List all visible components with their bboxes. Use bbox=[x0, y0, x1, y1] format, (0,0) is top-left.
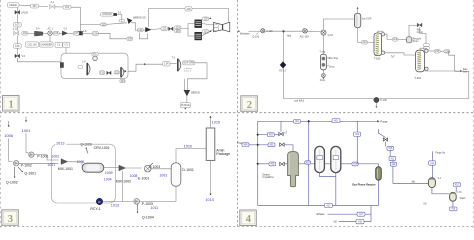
wire n2 bbox=[339, 220, 356, 222]
arrow up 1015 bbox=[209, 116, 211, 118]
arrow up A bbox=[209, 17, 211, 19]
arrow sale gas bbox=[460, 69, 468, 74]
svg-text:2: 2 bbox=[247, 100, 252, 111]
wire bbox=[385, 34, 393, 39]
stream box 2b bbox=[423, 47, 429, 50]
svg-text:1004: 1004 bbox=[104, 178, 112, 182]
LNG exchanger A bbox=[195, 20, 202, 28]
stream box 6 bbox=[13, 44, 21, 48]
svg-text:Q-trp: Q-trp bbox=[329, 66, 335, 69]
svg-text:P-100: P-100 bbox=[380, 99, 387, 102]
svg-text:1: 1 bbox=[8, 100, 13, 111]
capsule1 inner bbox=[317, 149, 323, 170]
svg-text:Drain: Drain bbox=[320, 79, 326, 82]
svg-text:1006: 1006 bbox=[4, 133, 13, 138]
valve V-100 bbox=[261, 29, 274, 33]
wire bbox=[419, 27, 421, 33]
wide label box NGF bbox=[183, 61, 195, 65]
recycle compressor glyph bbox=[417, 23, 424, 34]
wire bbox=[186, 96, 188, 102]
valve 2-1 bbox=[50, 0, 55, 8]
svg-text:1013: 1013 bbox=[56, 141, 64, 145]
mixer M-2 bbox=[145, 27, 151, 32]
valve X r3 bbox=[280, 143, 285, 146]
pump P-1001 bbox=[29, 152, 49, 159]
wire bbox=[452, 201, 454, 207]
stream box r5 bbox=[305, 161, 311, 165]
svg-text:1015: 1015 bbox=[212, 121, 220, 125]
wire bbox=[59, 32, 62, 34]
column T-100 bbox=[374, 33, 382, 60]
wire bbox=[389, 150, 391, 156]
badge 4 bbox=[240, 210, 256, 226]
svg-text:2-1: 2-1 bbox=[51, 0, 55, 4]
page border right bbox=[472, 0, 474, 228]
loop wire bbox=[61, 53, 128, 78]
wire bbox=[131, 23, 137, 31]
svg-text:Q-1002: Q-1002 bbox=[6, 181, 18, 185]
svg-text:105: 105 bbox=[15, 44, 20, 48]
stream box 4 bbox=[13, 23, 21, 27]
wire bbox=[16, 48, 18, 56]
pump P-1002 bbox=[14, 161, 32, 168]
valve X r2 bbox=[279, 131, 288, 135]
wire bbox=[181, 24, 195, 29]
stream box 12 bbox=[161, 27, 168, 31]
wire bbox=[428, 50, 434, 52]
mixer MIX-1001 bbox=[58, 159, 73, 171]
svg-text:T-101: T-101 bbox=[414, 76, 421, 80]
stream box bl bbox=[324, 203, 332, 207]
expander K-100 bbox=[214, 23, 223, 32]
stream 1001 bbox=[22, 116, 31, 133]
svg-text:MERGE GO: MERGE GO bbox=[133, 18, 146, 20]
svg-text:RCY-1: RCY-1 bbox=[90, 207, 100, 211]
svg-text:Q-1006: Q-1006 bbox=[80, 143, 91, 147]
mixer MIX-1002 bbox=[116, 165, 131, 183]
wire bbox=[16, 36, 18, 44]
wire bbox=[43, 33, 48, 35]
stream box 14 bbox=[202, 17, 208, 21]
svg-text:106: 106 bbox=[54, 31, 59, 35]
page border bottom bbox=[0, 226, 474, 228]
svg-text:101: 101 bbox=[32, 4, 37, 8]
stream box r3 bbox=[268, 143, 275, 147]
wire bbox=[16, 27, 18, 31]
wire bbox=[307, 30, 320, 32]
wire bbox=[183, 79, 185, 90]
heater E-100 bbox=[300, 29, 309, 39]
text lines under NGF bbox=[184, 68, 193, 72]
wire feed T101 bbox=[385, 53, 416, 55]
wire bbox=[175, 186, 177, 201]
air cooler AC-1 bbox=[48, 28, 54, 36]
wire bbox=[143, 29, 146, 31]
stream box 15 bbox=[202, 29, 208, 33]
wire top purge line bbox=[258, 120, 377, 122]
wire bbox=[409, 25, 417, 36]
pump P-100 bbox=[374, 97, 388, 102]
svg-text:Purge Va: Purge Va bbox=[435, 152, 445, 155]
wire bbox=[103, 201, 134, 203]
Amin Package rect bbox=[206, 128, 215, 160]
wire between capsules bbox=[324, 163, 330, 165]
wire capsule1 stub bbox=[320, 173, 336, 177]
recycle loop Q3 bbox=[51, 144, 115, 203]
svg-text:1008: 1008 bbox=[130, 174, 138, 178]
stream box 1 bbox=[31, 4, 39, 8]
wire ethane bbox=[327, 213, 357, 215]
stream box fv bbox=[453, 183, 460, 187]
stream box 20 bbox=[120, 79, 125, 83]
svg-text:T-100: T-100 bbox=[374, 56, 381, 60]
svg-text:MEA-Trap: MEA-Trap bbox=[328, 57, 339, 60]
wire bbox=[55, 6, 63, 8]
wire vertical B bbox=[308, 121, 310, 205]
recycle diamond RCY bbox=[279, 62, 286, 73]
stream box rx3 bbox=[390, 162, 396, 166]
MEA trap vessel bbox=[320, 54, 338, 70]
stream box rx2 bbox=[389, 156, 396, 160]
wire bbox=[170, 63, 177, 65]
junction hyd bbox=[282, 30, 284, 32]
svg-text:3: 3 bbox=[8, 214, 13, 225]
stream box 19 bbox=[114, 70, 119, 74]
wire bbox=[176, 149, 206, 163]
svg-text:131: 131 bbox=[100, 71, 105, 75]
svg-text:AC 1: AC 1 bbox=[48, 28, 54, 31]
svg-text:ToT: ToT bbox=[391, 57, 395, 59]
svg-text:Q-1003: Q-1003 bbox=[149, 165, 160, 169]
node dark valve bbox=[77, 31, 87, 36]
vessel D-1001 bbox=[171, 163, 181, 186]
label Q-1004 bbox=[137, 204, 154, 219]
svg-text:Deeper: Deeper bbox=[262, 173, 270, 176]
drain glyph bbox=[322, 74, 326, 78]
reactor CRV-1001 bbox=[82, 163, 104, 172]
svg-text:CHAMBER: CHAMBER bbox=[40, 43, 52, 46]
wire bbox=[9, 138, 13, 161]
mixer MIX-100 bbox=[321, 30, 334, 37]
wide box LPROAN bbox=[101, 12, 123, 16]
svg-text:Q-1004: Q-1004 bbox=[142, 215, 154, 219]
wire bbox=[128, 64, 163, 71]
wire right loop bbox=[284, 71, 469, 98]
svg-text:Methane: Methane bbox=[240, 33, 250, 36]
svg-text:107: 107 bbox=[74, 31, 79, 35]
stream box gly bbox=[434, 49, 440, 53]
wire bbox=[210, 117, 212, 128]
wire bbox=[358, 28, 374, 43]
svg-text:mol 1.4: mol 1.4 bbox=[184, 70, 192, 72]
stream box r6 bbox=[352, 162, 358, 166]
svg-text:Drum: Drum bbox=[413, 40, 419, 43]
page border left bbox=[0, 0, 2, 228]
stream box 2a bbox=[423, 44, 429, 47]
reboiler T-101 bbox=[425, 67, 428, 70]
svg-text:Crystallizer: Crystallizer bbox=[262, 176, 274, 179]
wire bbox=[52, 32, 53, 34]
wire bbox=[49, 35, 51, 42]
stream box v2 bbox=[354, 132, 361, 136]
stream box Cond bbox=[392, 38, 398, 42]
badge 1 bbox=[3, 96, 20, 112]
svg-text:Package: Package bbox=[216, 152, 230, 156]
wire bbox=[440, 50, 444, 52]
svg-text:112: 112 bbox=[138, 28, 143, 32]
badge 2 bbox=[241, 96, 257, 112]
wire bbox=[356, 136, 358, 163]
crystallizer vessel bbox=[288, 151, 299, 186]
stream box 8 bbox=[73, 31, 79, 35]
recycle RCY-1 bbox=[90, 198, 102, 211]
stream box 18 bbox=[99, 71, 104, 75]
svg-text:RCY-2: RCY-2 bbox=[279, 70, 286, 72]
wire bbox=[98, 33, 127, 39]
separator V-402 bbox=[450, 191, 467, 201]
wire bbox=[358, 164, 378, 167]
svg-text:1001: 1001 bbox=[22, 128, 31, 133]
svg-text:CV: CV bbox=[65, 44, 69, 47]
svg-text:104: 104 bbox=[23, 31, 28, 35]
reboiler T-100 bbox=[381, 51, 384, 54]
arrow exit loop bbox=[124, 70, 126, 73]
wire bbox=[265, 30, 302, 32]
stream box 16b bbox=[214, 28, 219, 31]
wire purge valve vertical bbox=[432, 151, 434, 178]
wire reactor out right bbox=[393, 183, 428, 185]
wire bbox=[28, 32, 34, 34]
wire bottom long bbox=[258, 205, 379, 207]
svg-text:LPROAN: LPROAN bbox=[102, 13, 112, 16]
chamber box D bbox=[63, 42, 70, 47]
svg-text:210: 210 bbox=[362, 40, 367, 44]
svg-text:Flash: Flash bbox=[460, 198, 466, 200]
stream box 8c bbox=[127, 37, 133, 41]
svg-text:115: 115 bbox=[176, 29, 181, 33]
svg-text:1009: 1009 bbox=[105, 171, 113, 175]
stream box 13a bbox=[175, 25, 181, 29]
svg-text:132: 132 bbox=[115, 70, 120, 74]
reactor capsule 1 bbox=[315, 146, 325, 172]
stream label Methane bbox=[238, 30, 250, 35]
arrow up sat bbox=[357, 7, 359, 9]
wire bbox=[322, 70, 324, 74]
svg-text:Cnd: Cnd bbox=[393, 39, 398, 41]
svg-text:103: 103 bbox=[15, 23, 20, 27]
arrow down pump bbox=[375, 106, 377, 108]
wire row33 to box bbox=[82, 32, 92, 34]
svg-text:D-1001: D-1001 bbox=[182, 168, 194, 172]
wire vertical purge2 bbox=[356, 121, 358, 132]
compressor K-101 bbox=[223, 22, 230, 32]
stream box p2 bbox=[332, 119, 340, 123]
svg-text:MIX-1002: MIX-1002 bbox=[116, 179, 131, 183]
label Q-100 bbox=[252, 33, 259, 39]
arrow down drain bbox=[323, 78, 325, 80]
svg-text:1011: 1011 bbox=[151, 206, 159, 210]
valve 1-5 bbox=[15, 54, 26, 58]
valve X r4 bbox=[280, 162, 285, 165]
svg-text:MER100: MER100 bbox=[191, 92, 201, 94]
svg-text:COL-3M: COL-3M bbox=[27, 43, 36, 46]
wire bbox=[149, 9, 229, 28]
column T-1 arc bbox=[87, 63, 90, 75]
stream box r2 bbox=[267, 133, 274, 137]
wire bbox=[71, 7, 80, 31]
svg-text:T-2: T-2 bbox=[172, 56, 176, 59]
svg-text:Q-1001: Q-1001 bbox=[24, 172, 36, 176]
page border horizontal center bbox=[0, 112, 474, 114]
wire bbox=[228, 9, 230, 24]
column T-1b arc bbox=[121, 67, 124, 77]
wire bbox=[280, 121, 282, 132]
wire bbox=[432, 188, 450, 194]
wire row2 bbox=[258, 134, 279, 136]
wire row3 bbox=[249, 144, 268, 146]
wire bbox=[210, 160, 212, 194]
svg-text:Purge: Purge bbox=[380, 120, 387, 124]
svg-text:4: 4 bbox=[246, 214, 252, 225]
wire bbox=[187, 63, 207, 90]
arrow down purge bbox=[184, 108, 186, 110]
stream box gly2 bbox=[444, 49, 450, 53]
wire bbox=[449, 51, 455, 71]
svg-text:225: 225 bbox=[435, 49, 440, 53]
stream box 3 bbox=[101, 22, 107, 26]
column T-2 arc bbox=[178, 59, 181, 72]
glyph MERGE triangle bbox=[127, 18, 146, 24]
mixer 5-2 bbox=[62, 28, 67, 36]
svg-text:LP100: LP100 bbox=[21, 12, 29, 15]
stream box 11 bbox=[185, 7, 192, 11]
wire bbox=[385, 142, 387, 147]
wire bbox=[379, 129, 386, 138]
reactor capsule 2 bbox=[331, 146, 341, 172]
stream box 8b bbox=[92, 31, 98, 35]
wire bbox=[284, 163, 287, 165]
wire row4 bbox=[258, 163, 269, 165]
svg-text:109: 109 bbox=[128, 37, 133, 41]
arrow on wire bbox=[144, 63, 146, 65]
label Amin Package bbox=[216, 148, 230, 156]
separator V-100 vessel bbox=[354, 13, 360, 27]
wire bbox=[140, 200, 177, 202]
wire bbox=[122, 171, 124, 201]
chamber box A bbox=[25, 42, 38, 47]
svg-text:108: 108 bbox=[93, 31, 98, 35]
wire bbox=[68, 32, 74, 34]
wire bbox=[424, 70, 459, 72]
svg-text:Gas Phase Reactor: Gas Phase Reactor bbox=[352, 183, 376, 187]
column T-101 bbox=[414, 50, 424, 80]
gas phase reactor bbox=[376, 167, 382, 180]
chamber box C bbox=[55, 42, 62, 47]
wire bbox=[398, 38, 407, 40]
stream box 16a bbox=[214, 25, 219, 28]
arrow purge bbox=[377, 120, 388, 124]
wire bbox=[249, 30, 261, 32]
stream box 5 bbox=[22, 31, 28, 35]
wire capsule2 down bbox=[335, 173, 337, 206]
condenser T-100 bbox=[378, 31, 385, 36]
svg-text:110: 110 bbox=[101, 22, 106, 26]
chamber box B bbox=[39, 42, 53, 47]
svg-text:134: 134 bbox=[164, 62, 169, 66]
wire bbox=[39, 5, 49, 7]
wire bbox=[151, 29, 161, 30]
valve X reactor bbox=[383, 138, 387, 141]
svg-text:102: 102 bbox=[65, 5, 70, 9]
junction r3 bbox=[256, 144, 259, 147]
stream box 2 bbox=[63, 5, 71, 9]
svg-text:P1: P1 bbox=[94, 52, 98, 56]
wire bbox=[341, 163, 352, 165]
LNG exchanger B bbox=[195, 32, 202, 40]
wire bbox=[378, 180, 380, 205]
svg-text:1014: 1014 bbox=[205, 198, 213, 202]
svg-text:cool (MU): cool (MU) bbox=[294, 100, 305, 103]
wire hyd vertical bbox=[283, 31, 285, 98]
stream box PURGE bbox=[180, 103, 190, 108]
wire bbox=[420, 33, 426, 43]
stream box pv bbox=[429, 161, 436, 165]
svg-text:T-olig: T-olig bbox=[319, 52, 325, 54]
wire bbox=[16, 7, 18, 23]
node on loop left bbox=[60, 62, 64, 68]
svg-text:1002: 1002 bbox=[51, 155, 59, 159]
stream box 10 bbox=[138, 28, 144, 32]
stream box rx1 bbox=[387, 146, 394, 150]
stream box 17 bbox=[78, 65, 83, 68]
wire bbox=[455, 187, 457, 193]
wire bbox=[151, 168, 171, 170]
stream box 7 bbox=[53, 31, 59, 35]
separator V-401 bbox=[428, 178, 441, 188]
svg-text:1010: 1010 bbox=[184, 144, 192, 148]
svg-text:P-1002: P-1002 bbox=[21, 163, 32, 167]
svg-text:1012: 1012 bbox=[111, 204, 119, 208]
stream box T-feed bbox=[361, 40, 367, 44]
svg-text:120: 120 bbox=[203, 17, 208, 21]
svg-text:Hyd: Hyd bbox=[287, 35, 292, 38]
wire bbox=[104, 167, 119, 169]
wire bbox=[19, 162, 59, 164]
svg-text:Q-10: Q-10 bbox=[328, 34, 334, 37]
valve 1-4 bbox=[13, 28, 19, 35]
valve LP100 bbox=[15, 10, 29, 14]
junction r4 bbox=[256, 163, 259, 166]
wire bbox=[19, 4, 31, 7]
wire bbox=[323, 35, 325, 54]
svg-text:113: 113 bbox=[162, 27, 167, 31]
wire bbox=[284, 145, 293, 152]
pump on loop top bbox=[92, 52, 98, 61]
svg-text:E-1001: E-1001 bbox=[138, 176, 149, 180]
svg-text:Sat GGP: Sat GGP bbox=[362, 17, 372, 20]
junction B bbox=[307, 120, 310, 123]
wire bbox=[106, 23, 127, 25]
arrow up B bbox=[209, 30, 211, 32]
air cooler E-1001 bbox=[138, 165, 151, 180]
recycle drum bbox=[406, 37, 412, 43]
wire bbox=[392, 161, 394, 184]
wire bbox=[68, 162, 82, 166]
svg-text:1003: 1003 bbox=[159, 173, 167, 177]
svg-text:133: 133 bbox=[120, 79, 125, 83]
wire main left vertical bbox=[257, 121, 259, 205]
stream box r4 bbox=[269, 162, 276, 166]
